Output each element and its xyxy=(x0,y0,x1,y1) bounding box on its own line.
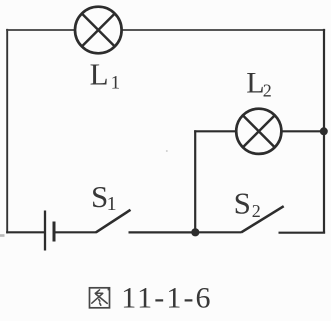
caption: hand-drawn 图 glyph xyxy=(90,288,111,308)
wire branch to L2 left xyxy=(194,130,236,132)
svg-text:2: 2 xyxy=(263,80,272,100)
wire top left segment xyxy=(6,29,75,31)
switch S2 lever xyxy=(241,206,283,232)
label S2 xyxy=(234,185,261,221)
wire L2 right to right wire xyxy=(281,130,325,132)
label L1 xyxy=(90,57,121,94)
svg-text:L: L xyxy=(90,57,109,92)
faint speck artifact xyxy=(166,150,168,152)
switch S1 lever xyxy=(96,210,131,233)
label L2 xyxy=(246,66,272,100)
wire left vertical xyxy=(6,29,8,234)
scan smudge at left edge xyxy=(0,234,5,237)
lamp L1 xyxy=(75,7,122,54)
wire top right segment xyxy=(123,29,326,31)
node junction on bottom wire xyxy=(191,228,199,236)
svg-text:S: S xyxy=(234,185,251,220)
label S1 xyxy=(91,179,117,215)
wire bottom left segment (corner to battery) xyxy=(6,231,44,233)
svg-text:1: 1 xyxy=(107,193,117,215)
wire right vertical xyxy=(323,29,325,234)
wire branch vertical (junction up to L2 line) xyxy=(194,130,196,232)
svg-text:1: 1 xyxy=(111,73,121,94)
battery cell: short thick plate xyxy=(53,222,56,242)
wire S1 contact to junction xyxy=(129,231,196,233)
battery cell: long plate xyxy=(44,211,46,251)
wire S2 contact to bottom right corner xyxy=(279,232,326,234)
lamp L2 xyxy=(236,109,281,154)
node junction on right wire xyxy=(320,127,328,135)
svg-text:11-1-6: 11-1-6 xyxy=(121,282,212,315)
svg-text:2: 2 xyxy=(252,201,261,221)
wire battery to S1 pivot xyxy=(55,231,97,233)
wire junction to S2 pivot xyxy=(195,231,242,233)
